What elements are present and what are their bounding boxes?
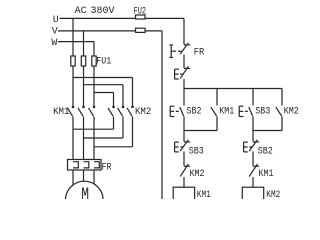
thermal relay FR heater box [68,160,102,171]
thermal contact FR NC [180,43,190,54]
svg-text:FR: FR [102,162,112,173]
wire W drop [93,42,95,56]
wire motor lead1 [72,170,74,186]
wire motor lead3 [93,170,95,185]
wire to coil KM1 [183,177,185,187]
wire U below fuse [72,66,74,107]
wire KM2 pole1 out [113,117,115,130]
fuse FU1b [81,56,85,66]
wire to SB2 NC [252,131,254,142]
wire U to KM2 pole3 [73,77,133,79]
fuse FU1c [92,56,96,66]
wire node bus [184,88,282,90]
fuse FU1a [71,56,75,66]
wire SB3 top [252,89,254,106]
wire box2 bottom [253,130,282,132]
coil KM2 [242,187,263,201]
wire control feed [183,18,185,44]
FR heater element 3 [94,162,99,168]
svg-text:KM1: KM1 [197,190,211,199]
wire control return [161,31,163,199]
FR heater element 1 [73,162,78,168]
wire to SB3 NC [183,131,185,142]
svg-text:SB3: SB3 [255,107,270,118]
coil KM1 [173,187,194,201]
start button SB3 NO contact [249,107,253,116]
wire KM2 aux top [281,89,283,106]
wire SB1 to node [183,79,185,89]
interlock contact KM1 NC [249,164,259,177]
contactor KM1 main pole2 [78,106,85,117]
contactor KM2 main pole1 [108,106,115,117]
wire SB2 top [183,89,185,106]
auxiliary contact KM1 NO [211,107,217,116]
wire W to KM2 pole1 [94,92,114,94]
wire SB3 bottom [252,116,254,130]
button SB2 NC operator [244,142,253,152]
wire FR to SB1 [183,55,185,69]
button SB2 NC contact [249,140,259,151]
wire motor line1 [72,117,74,160]
fuse FU2a [136,15,146,19]
wire SB3 to KM2 NC [183,152,185,166]
svg-text:W: W [51,38,57,49]
FR heater element 2 [84,162,89,168]
svg-text:SB2: SB2 [258,147,273,158]
fuse FU2b [136,28,146,32]
wire KM2 pole2 out [122,117,124,139]
wire U drop [72,18,74,55]
wire to coil KM2 [252,177,254,187]
interlock contact KM2 NC [180,164,190,177]
wire SB2 to KM1 NC [252,152,254,166]
svg-text:M: M [81,186,89,200]
wire phase V bus [58,30,136,32]
wire box1 bottom [184,130,217,132]
contactor KM1 main pole1 [68,106,75,117]
start button SB3 operator [239,106,248,116]
motor M circle [66,181,104,219]
start button SB2 operator [170,106,179,116]
wire motor lead2 [83,170,85,182]
svg-text:KM1: KM1 [53,107,69,118]
svg-text:KM2: KM2 [284,107,299,118]
svg-text:KM1: KM1 [259,169,274,180]
svg-text:KM2: KM2 [135,107,151,118]
stop button SB1 NC contact [180,66,190,78]
contactor KM1 main pole3 [89,106,96,117]
wire KM1 aux top [216,89,218,106]
wire phase W bus [58,41,94,43]
wire phase U bus [60,17,136,19]
wire motor line3 [93,117,95,160]
wire KM2 aux bottom [281,116,283,130]
svg-text:FU1: FU1 [96,57,111,68]
svg-text:380V: 380V [91,6,115,17]
wire V to KM2 pole2 [84,84,124,86]
svg-text:KM1: KM1 [219,107,234,118]
auxiliary contact KM2 NO [276,107,282,116]
wire W below fuse [93,66,95,107]
svg-text:KM2: KM2 [190,169,205,180]
svg-text:V: V [52,27,58,38]
wire V below fuse [83,66,85,107]
wire KM2 pole3 out [132,117,134,147]
button SB3 NC contact [180,140,190,151]
FR release element [169,45,181,58]
svg-text:U: U [53,15,59,26]
button SB3 NC operator [175,142,184,152]
svg-text:AC: AC [75,6,87,17]
contactor KM2 main pole3 [127,106,134,117]
wire KM1 aux bottom [216,116,218,130]
contactor KM2 main pole2 [118,106,125,117]
wire motor line2 [83,117,85,160]
start button SB2 NO contact [180,107,184,116]
wire SB2 bottom [183,116,185,130]
svg-text:FR: FR [194,47,205,58]
svg-text:SB2: SB2 [187,107,202,118]
stop button SB1 operator [175,69,184,79]
svg-text:KM2: KM2 [266,190,280,199]
wire V drop [83,31,85,56]
svg-text:SB3: SB3 [189,147,204,158]
